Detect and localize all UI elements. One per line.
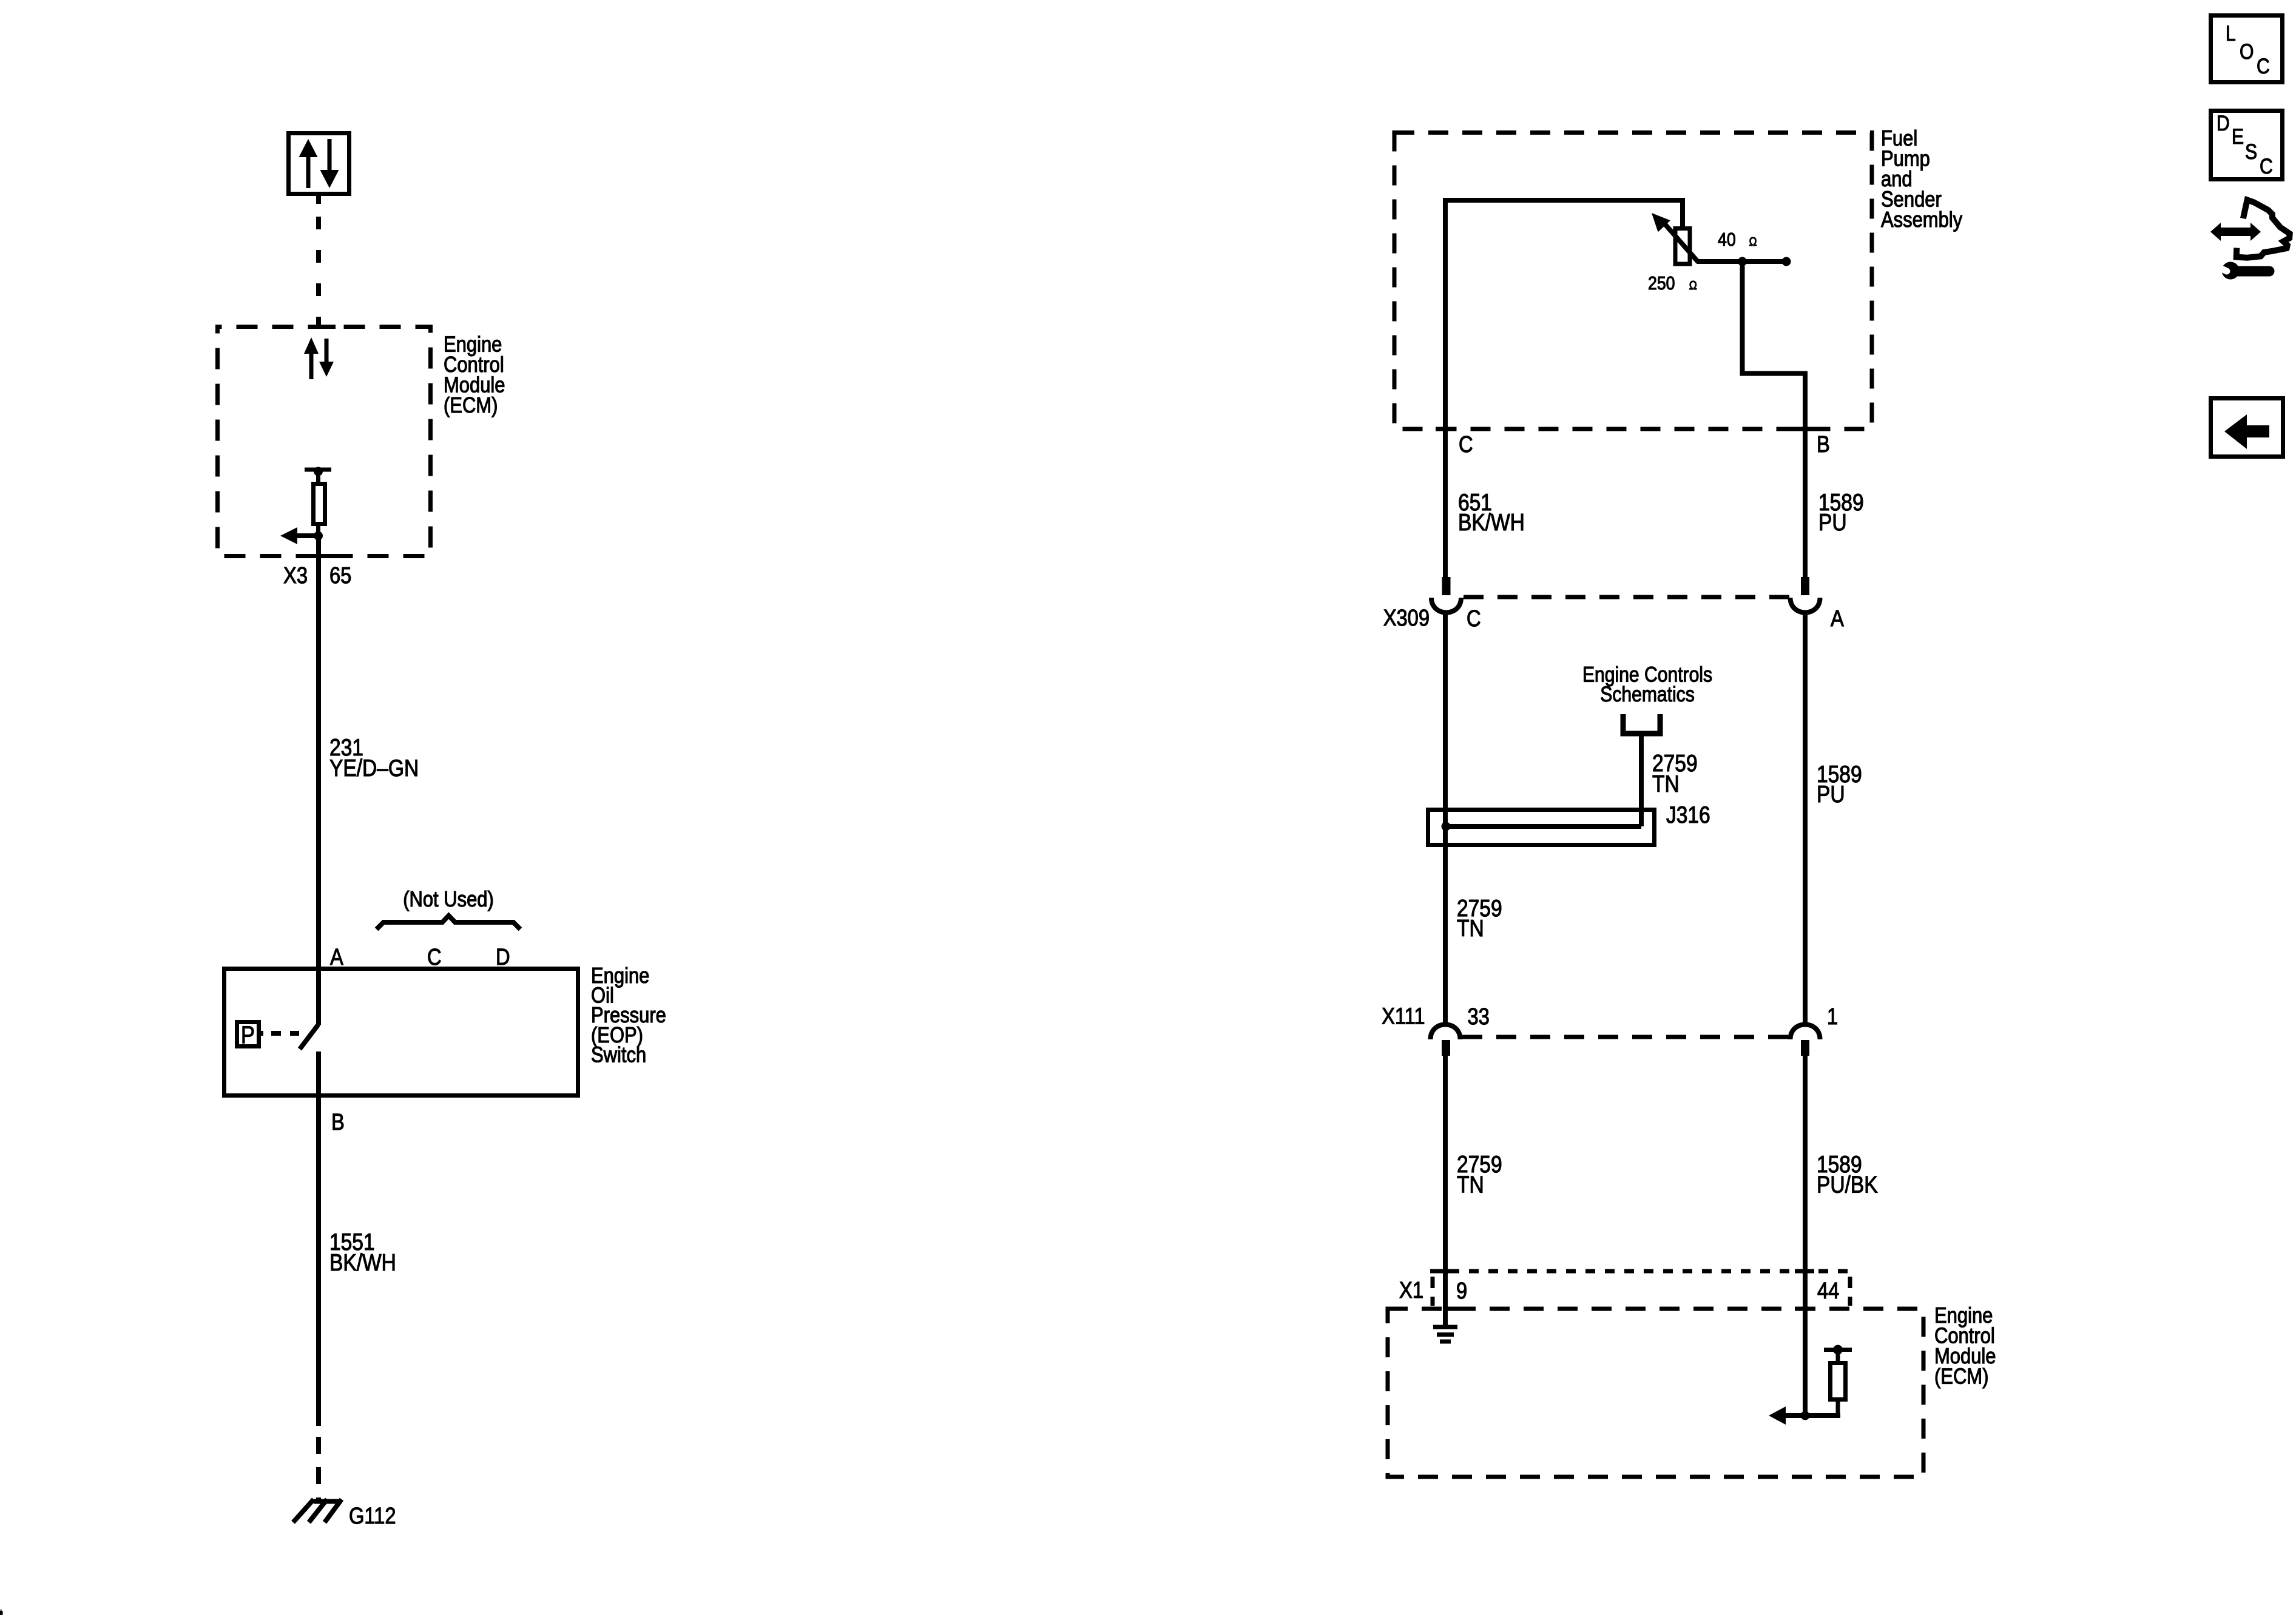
svg-text:TN: TN — [1457, 915, 1484, 942]
wiper output wire — [1697, 259, 1786, 264]
wire label 1589 PU/BK — [1817, 1151, 1878, 1198]
svg-text:33: 33 — [1468, 1004, 1490, 1030]
power box down arrow — [320, 139, 339, 188]
svg-text:44: 44 — [1817, 1278, 1839, 1304]
splice junction dot — [1442, 822, 1451, 831]
svg-text:O: O — [2240, 39, 2254, 64]
X309 right socket arc — [1791, 598, 1820, 613]
wire label 2759 TN (upper left) — [1457, 895, 1502, 942]
EOP switch box — [225, 969, 578, 1096]
ECM output arrow (left) — [296, 533, 318, 538]
ECM input arrow — [1784, 1413, 1805, 1418]
svg-text:X1: X1 — [1399, 1277, 1423, 1303]
svg-text:J316: J316 — [1666, 802, 1710, 828]
svg-text:X3: X3 — [283, 562, 308, 589]
DESC icon box — [2211, 111, 2283, 180]
sender supply wire (C leg up and across) — [1443, 198, 1685, 578]
svg-text:65: 65 — [329, 562, 351, 589]
Engine Controls Schematics label — [1582, 662, 1712, 706]
junction dot below resistor — [314, 532, 323, 541]
wire from A into switch — [316, 968, 321, 1025]
svg-text:(Not Used): (Not Used) — [403, 888, 494, 912]
svg-text:Schematics: Schematics — [1600, 682, 1694, 706]
pin tick ECM2 left — [1447, 1307, 1465, 1311]
wire label 651 BK/WH — [1458, 489, 1525, 536]
wire label 231 YE/D-GN — [329, 734, 419, 781]
svg-text:D: D — [2217, 111, 2230, 135]
svg-text:X309: X309 — [1383, 605, 1430, 631]
Fuel Pump and Sender Assembly dashed box — [1394, 133, 1872, 430]
wire X309-C down to X111 — [1443, 613, 1448, 1025]
svg-text:YE/D–GN: YE/D–GN — [329, 755, 419, 781]
brace over C D — [377, 916, 521, 930]
service tool double arrow — [2210, 223, 2261, 241]
svg-text:(ECM): (ECM) — [1934, 1365, 1988, 1389]
X309 left socket arc — [1431, 598, 1461, 613]
service tool icon outline — [2237, 200, 2290, 258]
power feed symbol box — [289, 133, 349, 194]
X111 right pin — [1801, 1040, 1809, 1056]
svg-text:(ECM): (ECM) — [444, 394, 498, 418]
pin tick at B — [1792, 427, 1814, 431]
svg-text:D: D — [496, 944, 510, 970]
svg-text:E: E — [2232, 124, 2244, 149]
pin tick X1 right — [1795, 1269, 1814, 1274]
wire label 2759 TN (lower) — [1457, 1151, 1502, 1198]
svg-text:C: C — [1459, 431, 1473, 457]
switch lower contact — [316, 1052, 321, 1096]
X309 right pin — [1801, 577, 1809, 595]
fuel pump name — [1881, 127, 1962, 232]
X111 dashed connector line — [1462, 1035, 1790, 1039]
svg-text:X111: X111 — [1382, 1003, 1425, 1029]
svg-text:A: A — [1831, 606, 1844, 632]
svg-text:L: L — [2226, 21, 2236, 46]
power box up arrow — [299, 139, 318, 188]
dashed wire to ECM — [316, 217, 321, 326]
svg-text:B: B — [1817, 431, 1830, 457]
svg-text:S: S — [2245, 140, 2257, 164]
sender wiper diagonal — [1663, 222, 1698, 262]
pin tick X1 left — [1434, 1269, 1450, 1274]
svg-text:PU: PU — [1818, 509, 1847, 536]
svg-text:C: C — [2260, 154, 2273, 178]
pin tick ECM2 right — [1795, 1307, 1814, 1311]
svg-text:C: C — [2257, 54, 2270, 78]
X111 left arc — [1431, 1024, 1460, 1039]
service tool wrench — [2222, 262, 2240, 280]
X309 dashed connector line — [1464, 595, 1791, 599]
ECM (left) dashed box — [218, 327, 431, 556]
svg-text:TN: TN — [1652, 771, 1680, 797]
X111 right arc — [1791, 1024, 1820, 1039]
pin tick at ECM top wire crossing — [315, 325, 336, 329]
wire below EOP switch — [316, 1096, 321, 1426]
wire label 1589 PU (middle) — [1817, 761, 1862, 808]
ECM (bottom right) name — [1934, 1304, 1996, 1389]
svg-text:A: A — [330, 944, 343, 970]
junction dot — [1738, 257, 1747, 266]
dot at resistor top — [314, 467, 323, 476]
splice J316 box — [1428, 810, 1655, 845]
dashed wire to ground — [316, 1437, 321, 1499]
svg-text:BK/WH: BK/WH — [329, 1249, 396, 1276]
sender wiper arrowhead — [1652, 213, 1670, 232]
svg-text:PU/BK: PU/BK — [1817, 1171, 1878, 1198]
X1 band left dotted edge — [1431, 1277, 1435, 1306]
ECM bidirectional arrows — [304, 337, 334, 379]
wire from ECM to EOP switch — [316, 536, 321, 968]
svg-text:9: 9 — [1456, 1278, 1467, 1304]
svg-text:C: C — [427, 944, 442, 970]
sender variable resistor body — [1675, 229, 1690, 265]
svg-text:BK/WH: BK/WH — [1458, 509, 1525, 536]
wire junction to B leg — [1740, 262, 1808, 578]
svg-text:B: B — [331, 1109, 345, 1135]
wire stub below power box — [316, 196, 321, 204]
svg-text:PU: PU — [1817, 781, 1845, 808]
dot at resistor top — [1833, 1345, 1843, 1355]
ECM internal resistor — [305, 470, 331, 538]
ground G112 — [293, 1499, 342, 1522]
off-page bracket — [1623, 714, 1660, 734]
dashed link P to switch — [271, 1031, 299, 1036]
signal ground in ECM — [1433, 1327, 1457, 1342]
wire label 1589 PU (upper) — [1818, 489, 1864, 536]
end terminal dot — [1782, 257, 1791, 266]
branch wire from bracket to splice — [1639, 734, 1644, 826]
resistor to junction wire — [1805, 1413, 1840, 1418]
connector X1 band — [1430, 1269, 1850, 1274]
svg-text:Switch: Switch — [591, 1043, 646, 1067]
X1 band right dotted edge — [1848, 1277, 1852, 1306]
pin tick at C — [1436, 427, 1455, 431]
P nub — [259, 1031, 263, 1036]
wire label 1551 BK/WH — [329, 1229, 396, 1276]
junction dot — [1801, 1411, 1810, 1420]
page corner mark — [0, 1611, 3, 1615]
svg-text:Assembly: Assembly — [1881, 208, 1962, 232]
ECM (left) name — [444, 333, 505, 417]
svg-text:P: P — [241, 1021, 255, 1048]
wire X309-A down to X111 — [1803, 613, 1808, 1025]
LOC icon box — [2211, 16, 2283, 83]
wire X111-1 down to ECM — [1803, 1056, 1808, 1416]
wire X111-33 down to ECM — [1443, 1056, 1448, 1329]
svg-text:C: C — [1467, 606, 1481, 632]
ECM (bottom right) dashed box — [1388, 1309, 1923, 1477]
back arrow icon box — [2211, 399, 2283, 457]
EOP switch name — [591, 964, 666, 1067]
back arrow — [2224, 414, 2269, 449]
ECM pull-up resistor — [1824, 1350, 1852, 1419]
P symbol box — [237, 1022, 259, 1047]
svg-text:TN: TN — [1457, 1171, 1484, 1198]
splice internal wire — [1446, 824, 1641, 829]
pin tick X3/65 — [315, 554, 336, 558]
svg-text:1: 1 — [1827, 1004, 1838, 1030]
X309 left pin — [1442, 577, 1451, 595]
switch blade — [300, 1024, 319, 1049]
svg-text:G112: G112 — [349, 1503, 396, 1529]
X111 left pin — [1442, 1040, 1450, 1056]
wire label 2759 TN (branch) — [1652, 750, 1698, 797]
